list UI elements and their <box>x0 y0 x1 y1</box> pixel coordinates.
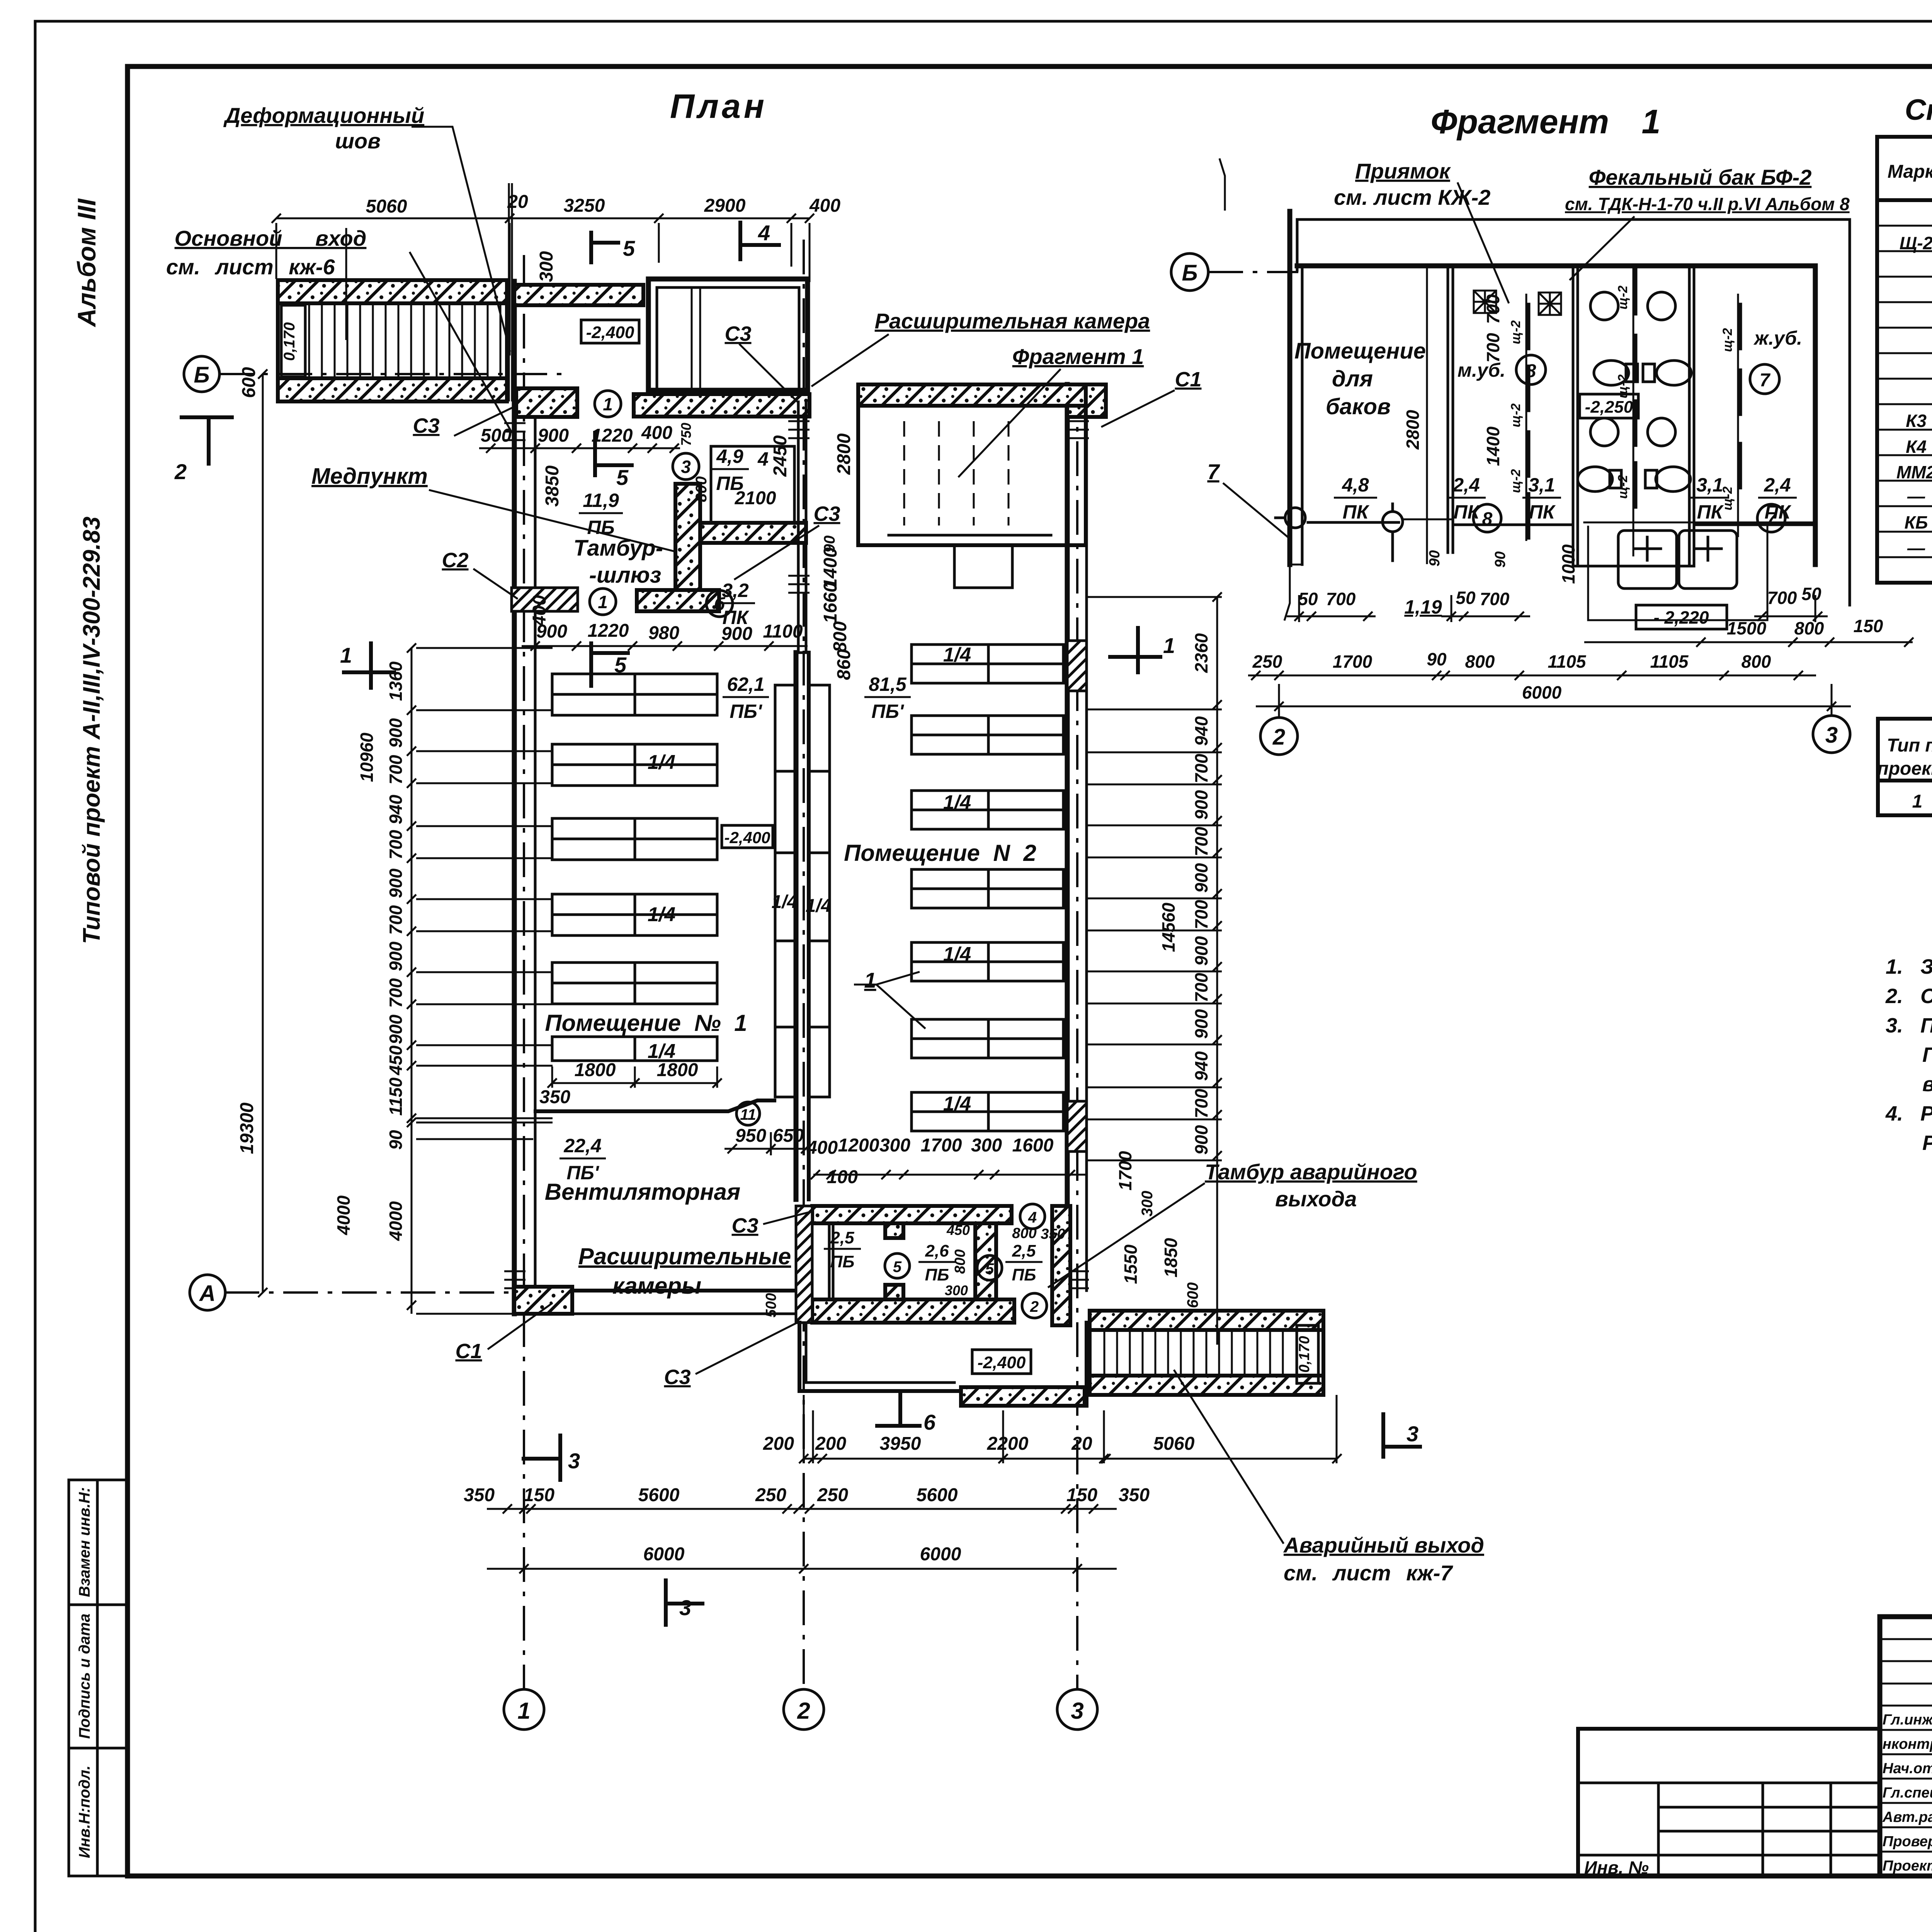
svg-text:900: 900 <box>386 1014 406 1044</box>
svg-text:2800: 2800 <box>834 433 854 475</box>
leader pit <box>1334 159 1509 303</box>
svg-text:С3: С3 <box>731 1214 758 1237</box>
svg-text:2: 2 <box>797 1698 810 1724</box>
svg-text:Аварийный выход: Аварийный выход <box>1283 1533 1484 1557</box>
fraction labels PK <box>1334 474 1797 618</box>
svg-text:4: 4 <box>1028 1209 1037 1226</box>
svg-text:КБ: КБ <box>1905 512 1928 532</box>
svg-text:7: 7 <box>1760 370 1771 391</box>
svg-text:5060: 5060 <box>366 196 407 217</box>
tambour top dim <box>479 444 680 453</box>
svg-text:90: 90 <box>1492 551 1509 568</box>
spec header text <box>1888 148 1932 196</box>
elevation -2.220 <box>1636 605 1727 629</box>
svg-text:Гл.спец.: Гл.спец. <box>1883 1785 1932 1801</box>
small room finish lines <box>711 446 794 523</box>
svg-text:20: 20 <box>507 192 528 212</box>
svg-text:11,9: 11,9 <box>583 490 619 511</box>
svg-text:1800: 1800 <box>657 1060 698 1080</box>
deformation joint lines <box>508 183 510 401</box>
axis line A horizontal <box>224 1291 572 1294</box>
spec table row lines (marka column) <box>1877 226 1932 557</box>
svg-text:ПБ: ПБ <box>925 1265 949 1284</box>
svg-text:1220: 1220 <box>588 621 629 641</box>
svg-text:Взамен инв.Н:: Взамен инв.Н: <box>76 1487 93 1597</box>
svg-text:2200: 2200 <box>987 1434 1029 1454</box>
400 1200 300 1700 300 1600 dim <box>811 1170 1086 1179</box>
svg-text:1150: 1150 <box>386 1077 406 1116</box>
central bunk columns <box>775 685 830 1097</box>
top right entrance chamber of room2 <box>858 384 1086 588</box>
svg-text:5: 5 <box>623 236 635 260</box>
leader 7 left <box>1207 459 1288 537</box>
svg-text:450: 450 <box>386 1045 406 1075</box>
svg-text:2450: 2450 <box>770 435 791 477</box>
svg-text:900: 900 <box>538 425 569 446</box>
axis bubble B <box>184 356 219 392</box>
bottom-right exit ramp <box>1090 1311 1323 1395</box>
svg-text:Тип по: Тип по <box>1887 735 1932 756</box>
svg-text:350: 350 <box>464 1485 495 1505</box>
inner partition lines of chambers <box>828 1223 831 1299</box>
svg-text:- 2,220: - 2,220 <box>1653 607 1709 628</box>
svg-text:ПБ: ПБ <box>1012 1265 1036 1284</box>
svg-text:940: 940 <box>386 794 406 824</box>
svg-text:900: 900 <box>1191 936 1211 966</box>
svg-text:—: — <box>1907 486 1925 506</box>
svg-text:3250: 3250 <box>564 196 605 216</box>
top wall band of left wing <box>514 285 643 305</box>
1800 1800 dim <box>548 1066 722 1088</box>
svg-text:-2,400: -2,400 <box>586 323 634 342</box>
950 650 dim <box>724 1132 810 1155</box>
svg-text:700: 700 <box>1483 333 1503 362</box>
svg-text:ПБ: ПБ <box>830 1252 855 1271</box>
svg-text:Медпункт: Медпункт <box>311 464 428 489</box>
svg-text:2: 2 <box>1030 1298 1039 1315</box>
svg-text:900: 900 <box>386 718 406 748</box>
fraction labels PB <box>560 446 1043 1284</box>
leader: emergency tambour <box>1048 1160 1417 1287</box>
svg-text:1100: 1100 <box>763 621 803 642</box>
svg-text:см. лист кж-6: см. лист кж-6 <box>166 255 335 279</box>
svg-text:1/4: 1/4 <box>648 751 675 774</box>
break mark bottom left <box>1284 565 1290 621</box>
svg-text:щ-2: щ-2 <box>1720 328 1735 352</box>
svg-text:2,4: 2,4 <box>1452 474 1480 496</box>
svg-text:5: 5 <box>985 1260 994 1277</box>
svg-text:2,6: 2,6 <box>925 1242 949 1260</box>
leader fecal tank <box>1565 165 1850 280</box>
fragment dim line 3 <box>1248 671 1816 680</box>
svg-text:20: 20 <box>1071 1434 1092 1454</box>
svg-text:С1: С1 <box>1175 368 1201 391</box>
svg-text:—: — <box>1907 538 1925 558</box>
svg-text:2100: 2100 <box>735 488 776 509</box>
svg-text:ПК: ПК <box>1529 501 1556 523</box>
svg-text:600: 600 <box>1184 1282 1201 1308</box>
svg-text:450: 450 <box>946 1222 970 1238</box>
svg-text:700: 700 <box>1767 588 1797 608</box>
svg-text:90: 90 <box>1427 550 1443 566</box>
svg-text:900: 900 <box>386 868 406 898</box>
svg-text:10960: 10960 <box>357 733 377 782</box>
svg-text:900: 900 <box>1191 1125 1211 1155</box>
svg-text:8: 8 <box>1526 361 1536 381</box>
leader: deformation joint <box>223 103 510 352</box>
svg-text:700: 700 <box>386 978 406 1008</box>
axis bubble 2 <box>784 1689 824 1730</box>
svg-text:700: 700 <box>386 755 406 784</box>
svg-text:800: 800 <box>1742 651 1771 672</box>
circled refs <box>1516 355 1546 384</box>
svg-text:50: 50 <box>1801 584 1821 604</box>
svg-text:3: 3 <box>1071 1698 1083 1724</box>
signature rows <box>1880 1639 1932 1852</box>
svg-text:350: 350 <box>1119 1485 1150 1505</box>
svg-text:150: 150 <box>524 1485 554 1505</box>
svg-text:800: 800 <box>1794 618 1824 638</box>
left wall thick <box>1287 211 1293 565</box>
svg-text:ж.уб.: ж.уб. <box>1753 327 1802 349</box>
svg-text:5: 5 <box>616 465 629 490</box>
svg-text:шов: шов <box>335 129 381 153</box>
svg-text:5060: 5060 <box>1153 1434 1195 1454</box>
svg-text:1/4: 1/4 <box>648 903 675 926</box>
svg-text:250: 250 <box>817 1485 848 1505</box>
svg-text:500: 500 <box>481 425 512 446</box>
left outer dim 19300 <box>258 369 267 1297</box>
svg-text:2: 2 <box>1272 724 1285 750</box>
taps <box>1276 504 1453 561</box>
elevation -2.250 <box>1580 394 1638 418</box>
leader 1 bunks <box>854 968 925 1029</box>
svg-text:Инв. №: Инв. № <box>1584 1857 1649 1878</box>
svg-text:860: 860 <box>834 649 854 680</box>
axis line B horizontal <box>219 373 564 375</box>
svg-text:Расширительная камера: Расширительная камера <box>875 309 1150 333</box>
svg-text:2,4: 2,4 <box>1764 474 1791 496</box>
svg-text:Инв.Н:подл.: Инв.Н:подл. <box>76 1765 93 1858</box>
svg-text:1700: 1700 <box>1333 651 1372 672</box>
svg-text:-шлюз: -шлюз <box>589 563 662 588</box>
wash sinks <box>1584 522 1816 620</box>
leader C3 right middle <box>734 502 840 580</box>
svg-text:980: 980 <box>648 623 679 643</box>
svg-text:2: 2 <box>174 459 187 484</box>
svg-text:81,5: 81,5 <box>869 673 907 695</box>
svg-text:1: 1 <box>517 1698 530 1724</box>
svg-text:3: 3 <box>1406 1422 1418 1446</box>
svg-text:600: 600 <box>239 367 259 398</box>
svg-text:3: 3 <box>1825 723 1838 748</box>
svg-text:300: 300 <box>879 1135 910 1156</box>
svg-text:2900: 2900 <box>704 196 746 216</box>
spec body text <box>1896 205 1932 558</box>
svg-text:1: 1 <box>864 968 876 992</box>
svg-text:800: 800 <box>830 621 850 652</box>
svg-text:700: 700 <box>1191 900 1211 929</box>
svg-text:План: План <box>670 87 767 125</box>
left strip of title block <box>1578 1729 1880 1878</box>
room2 bunk rows <box>912 645 1063 1131</box>
outer contour <box>1297 219 1850 605</box>
svg-text:1: 1 <box>598 592 608 612</box>
svg-text:700: 700 <box>1483 294 1503 324</box>
svg-text:4. Разрезы 1-1, 2-2 и типы пол: 4. Разрезы 1-1, 2-2 и типы полов см. лис… <box>1885 1102 1932 1125</box>
left margin stamp boxes <box>69 1480 126 1876</box>
left wing long west wall <box>512 281 517 1314</box>
svg-text:1. За отм. 0,000 условно приня: 1. За отм. 0,000 условно принята планиро… <box>1886 955 1932 978</box>
svg-text:выхода: выхода <box>1275 1187 1357 1211</box>
svg-text:1000: 1000 <box>1558 544 1578 584</box>
svg-text:6: 6 <box>923 1410 936 1434</box>
svg-text:Помещение: Помещение <box>1294 338 1426 364</box>
internal rotated dims <box>1403 294 1578 584</box>
svg-text:3850: 3850 <box>542 465 563 507</box>
svg-text:300: 300 <box>536 251 557 282</box>
svg-text:Авт.разд.: Авт.разд. <box>1882 1809 1932 1825</box>
section marks <box>174 221 1420 1625</box>
svg-text:350: 350 <box>1041 1226 1065 1242</box>
joint tick marks <box>504 421 1089 1288</box>
svg-text:К3: К3 <box>1906 411 1927 431</box>
svg-text:ПК: ПК <box>1454 501 1481 523</box>
axis bubble 1 <box>504 1689 544 1730</box>
svg-text:50: 50 <box>1298 589 1318 609</box>
right dim chain <box>1213 592 1222 1345</box>
svg-text:3950: 3950 <box>880 1434 921 1454</box>
svg-text:0,170: 0,170 <box>281 322 298 361</box>
axis bubble B fragment <box>1171 253 1208 291</box>
partition 1 <box>1426 266 1428 564</box>
svg-text:Помещение № 1: Помещение № 1 <box>545 1010 747 1036</box>
svg-text:ПК: ПК <box>1697 501 1724 523</box>
svg-text:90: 90 <box>386 1130 406 1150</box>
svg-text:800: 800 <box>1465 651 1495 672</box>
svg-text:14560: 14560 <box>1158 903 1179 952</box>
leader: medpunkt <box>311 464 676 552</box>
svg-text:4,9: 4,9 <box>716 446 743 467</box>
west wall corner block at medpunkt <box>516 388 577 417</box>
svg-text:2800: 2800 <box>1403 410 1423 450</box>
axis line 1 <box>523 255 525 1690</box>
east wall of room2 <box>1065 384 1070 1314</box>
svg-text:Проверил: Проверил <box>1883 1833 1932 1850</box>
svg-text:1,19: 1,19 <box>1404 596 1442 618</box>
svg-text:700: 700 <box>1191 1088 1211 1118</box>
room1 bunk rows <box>552 674 717 1061</box>
svg-text:щ-2: щ-2 <box>1509 469 1523 493</box>
svg-text:700: 700 <box>1191 753 1211 783</box>
svg-text:350: 350 <box>539 1087 570 1107</box>
svg-text:1400: 1400 <box>1483 426 1503 466</box>
svg-text:Б: Б <box>194 362 209 388</box>
svg-text:200: 200 <box>815 1434 846 1454</box>
left dim chain inner <box>407 643 549 1314</box>
svg-text:1/4: 1/4 <box>648 1040 675 1063</box>
bottom wall of left wing <box>514 1289 804 1293</box>
svg-text:ГОСТу 6133-75. Узлы крепления: ГОСТу 6133-75. Узлы крепления перегородо… <box>1922 1043 1932 1066</box>
section mark 5 top <box>591 233 618 262</box>
svg-text:ПБ: ПБ <box>587 517 614 538</box>
svg-text:Помещение N 2: Помещение N 2 <box>844 840 1036 866</box>
svg-text:1/4: 1/4 <box>943 943 971 966</box>
svg-text:1360: 1360 <box>386 661 406 701</box>
svg-text:С1: С1 <box>455 1340 482 1363</box>
svg-text:0,170: 0,170 <box>1296 1336 1313 1372</box>
svg-text:Расширительные: Расширительные <box>578 1243 791 1269</box>
svg-text:Деформационный: Деформационный <box>223 103 424 128</box>
svg-text:1500: 1500 <box>1727 618 1767 638</box>
fragment dim line 1 <box>1287 595 1828 622</box>
svg-text:1/4: 1/4 <box>806 896 832 916</box>
svg-text:150: 150 <box>1854 616 1883 636</box>
svg-text:нконтрсс: нконтрсс <box>1883 1736 1932 1752</box>
svg-text:940: 940 <box>1191 716 1211 746</box>
svg-text:700: 700 <box>1480 589 1510 609</box>
svg-text:950: 950 <box>735 1126 766 1146</box>
svg-text:см. лист кж-7: см. лист кж-7 <box>1284 1561 1453 1585</box>
tambour bottom wall <box>637 590 719 611</box>
fragment dim line 2 <box>1584 638 1913 647</box>
svg-text:выпуск 5.: выпуск 5. <box>1922 1073 1932 1096</box>
svg-text:900: 900 <box>1191 1009 1211 1039</box>
leader C3 bottom <box>731 1211 812 1237</box>
svg-text:150: 150 <box>1066 1485 1097 1505</box>
svg-text:400: 400 <box>641 423 672 443</box>
svg-text:8: 8 <box>1482 509 1493 529</box>
svg-text:1: 1 <box>340 643 352 667</box>
partition 2 panels <box>1509 294 1528 541</box>
svg-text:300: 300 <box>945 1282 968 1298</box>
svg-text:700: 700 <box>386 830 406 859</box>
svg-text:К4: К4 <box>1906 437 1927 457</box>
svg-text:4: 4 <box>758 221 770 245</box>
svg-text:Приямок: Приямок <box>1355 159 1451 183</box>
svg-text:700: 700 <box>386 905 406 935</box>
svg-text:22,4: 22,4 <box>563 1135 601 1156</box>
shower cross squares <box>1474 291 1561 315</box>
svg-text:900: 900 <box>1191 790 1211 820</box>
svg-text:650: 650 <box>773 1126 804 1146</box>
bottom dim line 1 <box>799 1395 1342 1463</box>
break mark top left <box>1219 158 1225 211</box>
elevation -2.400 labels <box>581 320 639 343</box>
svg-text:1800: 1800 <box>575 1060 616 1080</box>
svg-text:1: 1 <box>603 394 613 414</box>
axis bubble A <box>190 1275 225 1310</box>
leader C3 vestibule <box>664 1321 799 1389</box>
svg-text:-2,400: -2,400 <box>978 1353 1026 1372</box>
svg-text:1660: 1660 <box>820 582 841 623</box>
svg-text:3: 3 <box>681 457 691 477</box>
svg-text:11: 11 <box>740 1106 756 1123</box>
svg-text:Проектир: Проектир <box>1883 1858 1932 1874</box>
svg-text:Фрагмент 1: Фрагмент 1 <box>1012 344 1144 369</box>
leader C1 bottom left <box>455 1303 553 1363</box>
svg-text:3,1: 3,1 <box>1528 474 1555 496</box>
tambour wall horizontal <box>700 523 806 543</box>
WC enclosure <box>1572 266 1575 566</box>
svg-text:Б: Б <box>1182 260 1197 286</box>
svg-text:1105: 1105 <box>1650 651 1689 672</box>
svg-text:1200: 1200 <box>838 1135 879 1156</box>
svg-text:5: 5 <box>614 653 627 677</box>
bottom dim line 2 <box>487 1504 1117 1514</box>
svg-text:-2,250: -2,250 <box>1585 398 1633 417</box>
svg-text:1550: 1550 <box>1121 1244 1141 1284</box>
leader C3 tambour <box>724 322 798 403</box>
svg-text:Основной вход: Основной вход <box>175 226 367 250</box>
svg-text:62,1: 62,1 <box>727 673 764 695</box>
svg-text:С2: С2 <box>442 549 468 572</box>
fragment dim line 4 <box>1256 702 1851 711</box>
svg-text:1850: 1850 <box>1161 1238 1181 1277</box>
svg-text:400: 400 <box>806 1138 838 1158</box>
svg-text:900: 900 <box>1191 863 1211 893</box>
leader C3 left top <box>413 406 515 437</box>
svg-text:4000: 4000 <box>333 1195 354 1235</box>
svg-text:С3: С3 <box>724 322 751 345</box>
dim extension lines <box>416 597 1222 1160</box>
svg-text:19300: 19300 <box>237 1102 257 1154</box>
circled partition marks <box>590 391 1047 1318</box>
svg-text:3: 3 <box>568 1449 580 1473</box>
svg-text:300: 300 <box>1139 1191 1156 1217</box>
svg-text:700: 700 <box>1191 973 1211 1002</box>
partition 5 panels <box>1720 294 1740 537</box>
svg-text:900: 900 <box>721 624 752 644</box>
WC bowls <box>1590 292 1675 446</box>
svg-text:1/4: 1/4 <box>943 1093 971 1115</box>
svg-text:ММ2: ММ2 <box>1896 462 1932 482</box>
svg-text:4,8: 4,8 <box>1342 474 1369 496</box>
svg-text:для: для <box>1332 366 1373 391</box>
svg-text:2,5: 2,5 <box>830 1228 854 1247</box>
svg-text:1105: 1105 <box>1548 651 1587 672</box>
svg-text:ПБ': ПБ' <box>871 701 904 722</box>
svg-text:баков: баков <box>1326 394 1391 419</box>
bottom expansion chambers walls <box>763 1206 1070 1325</box>
svg-text:ПБ': ПБ' <box>566 1162 599 1184</box>
svg-text:А: А <box>199 1281 216 1306</box>
svg-text:Нач.отд.: Нач.отд. <box>1883 1760 1932 1777</box>
axis bubble 3 <box>1057 1689 1097 1730</box>
leader: expansion chamber top right <box>811 309 1150 477</box>
svg-text:1700: 1700 <box>921 1135 962 1156</box>
axis line 3 <box>1076 383 1078 1690</box>
svg-text:2,5: 2,5 <box>1012 1242 1036 1260</box>
svg-text:3. Перегородки толщиной 90мм и: 3. Перегородки толщиной 90мм из бетонных… <box>1886 1014 1932 1037</box>
svg-text:300: 300 <box>971 1135 1002 1156</box>
hatched band below chamber <box>634 394 810 417</box>
svg-text:Спецификация элементов к фр: Спецификация элементов к фрагменту 1 <box>1905 94 1932 126</box>
svg-text:С3: С3 <box>813 502 840 526</box>
svg-text:200: 200 <box>763 1434 794 1454</box>
svg-text:-2,400: -2,400 <box>724 828 770 847</box>
svg-text:5: 5 <box>893 1259 902 1276</box>
svg-text:1220: 1220 <box>592 425 633 446</box>
top-left entrance ramp <box>278 280 507 401</box>
svg-text:700: 700 <box>1326 589 1356 609</box>
svg-text:ПК: ПК <box>1765 501 1792 523</box>
svg-text:щ-2: щ-2 <box>1509 320 1523 344</box>
svg-text:5600: 5600 <box>638 1485 680 1505</box>
svg-text:4: 4 <box>757 448 769 470</box>
svg-text:Фекальный бак БФ-2: Фекальный бак БФ-2 <box>1589 165 1812 189</box>
bottom dim line 3 <box>487 1564 1117 1573</box>
